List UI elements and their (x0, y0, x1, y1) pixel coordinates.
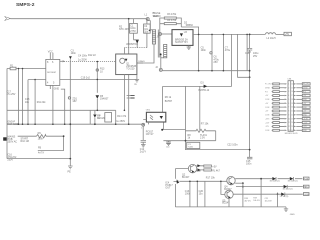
svg-text:20: 20 (291, 107, 293, 109)
svg-text:24: 24 (291, 122, 293, 124)
svg-text:13: 13 (288, 130, 290, 132)
svg-text:10n: 10n (97, 118, 100, 120)
wire IC1 left pin1 (7, 68, 46, 70)
zener ZD1 (68, 97, 70, 99)
svg-text:25V: 25V (253, 55, 258, 58)
svg-text:TL431: TL431 (188, 147, 193, 149)
svg-text:R4 470k: R4 470k (167, 19, 177, 22)
wire left vertical (6, 69, 8, 159)
wire Q5 emitter down (228, 199, 230, 207)
svg-text:COM: COM (265, 107, 270, 109)
wire OK1 left pins (143, 119, 148, 124)
capacitor C7 (222, 34, 224, 70)
resistor R1 (10, 67, 16, 70)
transformer T1 secondary winding (164, 44, 167, 57)
MOSFET/switch U2 box (116, 54, 137, 75)
wire verticals left (19, 69, 36, 125)
capacitor C6 electrolytic (211, 34, 213, 70)
label 5VSB (303, 193, 309, 196)
ground U3 (188, 45, 190, 47)
diode D8b (197, 168, 200, 171)
wire mid rail (179, 180, 227, 182)
capacitor C9 (247, 48, 252, 50)
wire U2 right pin (137, 62, 143, 64)
svg-text:GND: GND (303, 99, 308, 101)
wire fb vert x=199.8 (199, 86, 201, 130)
resistor R15 (204, 165, 212, 167)
svg-text:5VSB: 5VSB (304, 194, 310, 196)
junction C2 (149, 30, 151, 32)
svg-text:FB: FB (38, 146, 41, 149)
transistor Q2 top (188, 164, 196, 172)
resistor R4 (164, 23, 176, 25)
wire Q4 emitter (235, 182, 243, 184)
svg-text:COM: COM (265, 130, 270, 132)
svg-text:19: 19 (291, 103, 293, 105)
wire primary bottom (137, 44, 154, 63)
wire left vert (174, 184, 176, 207)
wire fb to C15 (186, 141, 250, 150)
svg-text:15: 15 (291, 87, 293, 89)
wire line B (60, 78, 137, 80)
capacitor C2 box (144, 24, 151, 33)
svg-text:17: 17 (291, 95, 293, 97)
capacitor C15 bottom (247, 157, 252, 159)
wire stub y=77.3 (238, 71, 250, 78)
svg-text:11: 11 (288, 122, 290, 124)
svg-text:R7 10k: R7 10k (201, 123, 209, 126)
caps verticals (190, 181, 205, 207)
svg-text:+5V: +5V (285, 33, 290, 36)
svg-text:R12 22: R12 22 (88, 54, 96, 57)
transformer T1 primary winding (152, 30, 155, 44)
wire Q2 base (175, 169, 188, 179)
svg-text:1kV: 1kV (144, 30, 149, 33)
svg-text:P.G.: P.G. (303, 91, 307, 93)
label +5V out (284, 32, 291, 35)
wire vert x=90.2 (89, 110, 91, 124)
pin circle OK1 (142, 123, 145, 126)
wire OK1 right bottom (163, 122, 185, 130)
svg-text:23: 23 (291, 118, 293, 120)
label FAN+ (303, 177, 309, 180)
wire secondary stub (161, 57, 164, 59)
wire U2 bottom pin (123, 75, 125, 111)
inductor L2 (265, 33, 275, 35)
wire snubber line (124, 47, 146, 49)
svg-text:2n2/Y: 2n2/Y (140, 151, 147, 154)
svg-text:FAN: FAN (304, 186, 308, 189)
wire vertical x=128.7 (128, 19, 130, 125)
svg-text:GND: GND (303, 107, 308, 109)
svg-text:HOT SIDE: HOT SIDE (7, 123, 19, 126)
wire IC1 bottom pins (50, 85, 53, 124)
snubber box mid (105, 113, 112, 122)
svg-text:BC327: BC327 (182, 176, 190, 179)
diode D8 (197, 164, 200, 167)
svg-text:GND: GND (303, 115, 308, 117)
svg-text:C4 100n: C4 100n (78, 55, 88, 58)
wire IC1 left pin2 (28, 80, 46, 125)
wire bus L1 (7, 109, 116, 111)
svg-text:1u 250V: 1u 250V (78, 58, 87, 61)
svg-text:1N 4148 (2): 1N 4148 (2) (270, 181, 280, 183)
svg-text:10k 5%: 10k 5% (253, 200, 260, 202)
svg-text:BC557: BC557 (165, 100, 173, 103)
svg-text:C14: C14 (245, 52, 250, 55)
svg-text:14: 14 (291, 84, 293, 86)
wire row C (234, 193, 303, 195)
svg-text:PS-ON: PS-ON (303, 84, 309, 86)
svg-text:SCHOTTKY: SCHOTTKY (175, 41, 188, 44)
wire C2 pins (146, 19, 148, 48)
wire IC1 right pin arrow (60, 60, 63, 62)
resistor R7 zigzag (186, 129, 216, 132)
diode D9 (272, 177, 276, 180)
diode D12 (281, 193, 285, 196)
svg-text:L2 10uH: L2 10uH (267, 37, 276, 40)
svg-text:MC33067: MC33067 (47, 72, 57, 74)
wire C1 pins (132, 19, 134, 40)
wire fb vert x=185.5 (185, 86, 187, 140)
svg-text:5VSB: 5VSB (303, 87, 308, 89)
IC1 box (46, 59, 60, 85)
transistor Q5 (225, 190, 233, 198)
svg-text:12: 12 (288, 126, 290, 128)
wire 12V rail (162, 70, 249, 72)
wire IC1 top pins (50, 53, 53, 60)
svg-text:RL 4k7: RL 4k7 (212, 169, 220, 172)
wire circle to U3 (162, 33, 173, 35)
svg-text:+5V: +5V (212, 165, 217, 168)
diode D5 (96, 95, 100, 99)
svg-text:C22 100n: C22 100n (227, 143, 238, 146)
wire drive line A (64, 61, 116, 63)
svg-text:MOLEX 39-29: MOLEX 39-29 (285, 133, 299, 135)
svg-text:P.ON: P.ON (304, 179, 309, 181)
svg-text:100n: 100n (71, 52, 77, 55)
svg-text:R6 1k: R6 1k (165, 96, 172, 99)
svg-text:R11 22k: R11 22k (37, 101, 47, 104)
wire bus L5 (7, 158, 70, 160)
ground bottom (284, 207, 288, 212)
wire Q5 base (221, 181, 225, 194)
resistor R3 (164, 17, 176, 19)
svg-text:C10: C10 (166, 147, 169, 149)
svg-text:OUT: OUT (165, 187, 171, 190)
resistor R9 zigzag (37, 135, 47, 138)
capacitor C5 (198, 34, 200, 70)
optocoupler OK1 (146, 112, 165, 122)
wire vert x=237.6 (237, 34, 239, 70)
wire bus L3 (18, 135, 64, 137)
wire bus L2 (7, 123, 142, 125)
svg-text:5VSB: 5VSB (265, 87, 270, 89)
capacitor C10 to ground (166, 141, 171, 146)
wire U2 top pin (123, 48, 125, 54)
wire Q2 collector rows (196, 166, 203, 171)
capacitor C8 (246, 34, 248, 70)
svg-text:10: 10 (288, 118, 290, 120)
svg-text:NTC 4R7: NTC 4R7 (119, 28, 130, 31)
svg-text:26: 26 (291, 130, 293, 132)
wire vert x=231.6 (231, 34, 233, 70)
svg-text:2.5V: 2.5V (200, 136, 205, 139)
diode D4 blob (69, 56, 72, 59)
capacitor C11 mid (115, 110, 117, 124)
capacitor C1 box (130, 23, 138, 33)
diode D11 (284, 185, 288, 188)
label FAN- (303, 185, 309, 188)
transistor Q3 small (174, 180, 177, 184)
ground U2 (135, 75, 139, 82)
svg-text:100n: 100n (185, 193, 191, 196)
svg-text:1u 250V: 1u 250V (116, 120, 125, 123)
svg-text:10u 16V: 10u 16V (265, 200, 273, 202)
diode D3 (204, 85, 208, 88)
svg-text:VARISTOR: VARISTOR (126, 43, 138, 46)
svg-text:DRAIN: DRAIN (138, 60, 145, 63)
svg-text:18V: 18V (72, 100, 77, 103)
svg-text:VCC: VCC (48, 50, 53, 53)
wire vert x=97.3 (96, 62, 98, 93)
svg-text:100n: 100n (201, 49, 207, 52)
svg-text:4k7 5%: 4k7 5% (244, 200, 251, 202)
svg-text:1N 4148 (2): 1N 4148 (2) (288, 181, 298, 183)
wire fb bottom (163, 131, 215, 141)
svg-text:21: 21 (291, 111, 293, 113)
wire R rows (160, 18, 182, 30)
junction (128, 18, 130, 20)
svg-text:25: 25 (291, 126, 293, 128)
wire secondary to pin (160, 55, 162, 68)
Y-cap chain (142, 126, 144, 140)
svg-text:275V: 275V (130, 30, 136, 33)
svg-text:R17 10k: R17 10k (206, 177, 216, 180)
pin circle secondary top (159, 33, 162, 36)
svg-text:PC ON: PC ON (265, 84, 271, 86)
wire feedback top (163, 71, 232, 87)
wire row B (236, 186, 303, 188)
wire IC1 pin5 branch (61, 89, 65, 124)
svg-text:EE25: EE25 (153, 15, 160, 18)
capacitor C20 plates on x=128.7 (130, 95, 134, 98)
transistor Q4 (227, 176, 235, 184)
transformer T1 core (158, 30, 160, 58)
svg-text:GND: GND (303, 130, 308, 132)
svg-text:SMPS-2: SMPS-2 (16, 2, 35, 8)
svg-text:10n: 10n (25, 101, 30, 104)
wire row A (235, 178, 302, 180)
diode D10 (290, 177, 294, 180)
svg-text:18: 18 (291, 99, 293, 101)
svg-text:CNY17: CNY17 (146, 133, 154, 136)
svg-text:250V AC: 250V AC (8, 140, 18, 143)
svg-text:47u 25V: 47u 25V (7, 93, 16, 96)
svg-text:+3.3V: +3.3V (303, 118, 309, 120)
svg-text:22: 22 (291, 114, 293, 116)
wire AC line top (11, 18, 147, 20)
resistor R16 (204, 169, 212, 171)
wire bottom rail (175, 206, 286, 208)
wire fb vert x=162.6 (162, 86, 164, 112)
svg-text:C19 2n2: C19 2n2 (81, 77, 91, 80)
svg-text:5V SB (R): 5V SB (R) (280, 196, 289, 198)
pin circle P1 (146, 18, 149, 21)
wire bracket (38, 136, 64, 150)
wire right vert (242, 183, 244, 207)
svg-text:COM: COM (265, 115, 270, 117)
pin circle +12V (159, 68, 162, 71)
svg-text:100k: 100k (38, 138, 44, 141)
connector J1 AC input arrow (5, 17, 11, 21)
wire vert x=249.6 top (249, 34, 251, 157)
rectifier U3 box (172, 30, 193, 46)
svg-text:R3 470k: R3 470k (167, 13, 177, 16)
svg-text:470u: 470u (225, 49, 231, 52)
junction fb (185, 140, 187, 142)
svg-text:10u: 10u (199, 193, 204, 196)
svg-text:SB560: SB560 (186, 24, 194, 27)
wire diode feed (181, 27, 198, 34)
svg-text:OK1: OK1 (146, 110, 151, 112)
svg-text:1N 4004 (2): 1N 4004 (2) (283, 189, 293, 191)
wire primary top (148, 21, 153, 30)
net label square (3, 137, 6, 140)
svg-text:GND: GND (290, 214, 295, 216)
svg-text:4n7/Y: 4n7/Y (38, 151, 45, 154)
svg-text:1N4007: 1N4007 (100, 97, 109, 100)
svg-text:+3V3: +3V3 (265, 118, 269, 120)
svg-text:TO-220: TO-220 (126, 68, 135, 71)
svg-text:16: 16 (291, 91, 293, 93)
diode D1 (136, 40, 139, 44)
svg-text:R14 47k: R14 47k (117, 115, 127, 118)
connector CN1 (288, 81, 293, 132)
wire vert x=70.3 (69, 59, 71, 166)
svg-text:COM: COM (265, 99, 270, 101)
svg-text:BZX55-12: BZX55-12 (199, 89, 210, 92)
svg-text:GND: GND (54, 87, 60, 90)
diode D6 chain mid (94, 110, 96, 114)
svg-text:100n: 100n (246, 163, 252, 166)
svg-text:PE: PE (68, 171, 72, 174)
ground PE (68, 166, 73, 169)
svg-text:R10 1M: R10 1M (21, 140, 29, 143)
svg-text:25V: 25V (214, 61, 219, 64)
junction winding dot (160, 53, 162, 55)
wire +5V rail (193, 33, 265, 35)
